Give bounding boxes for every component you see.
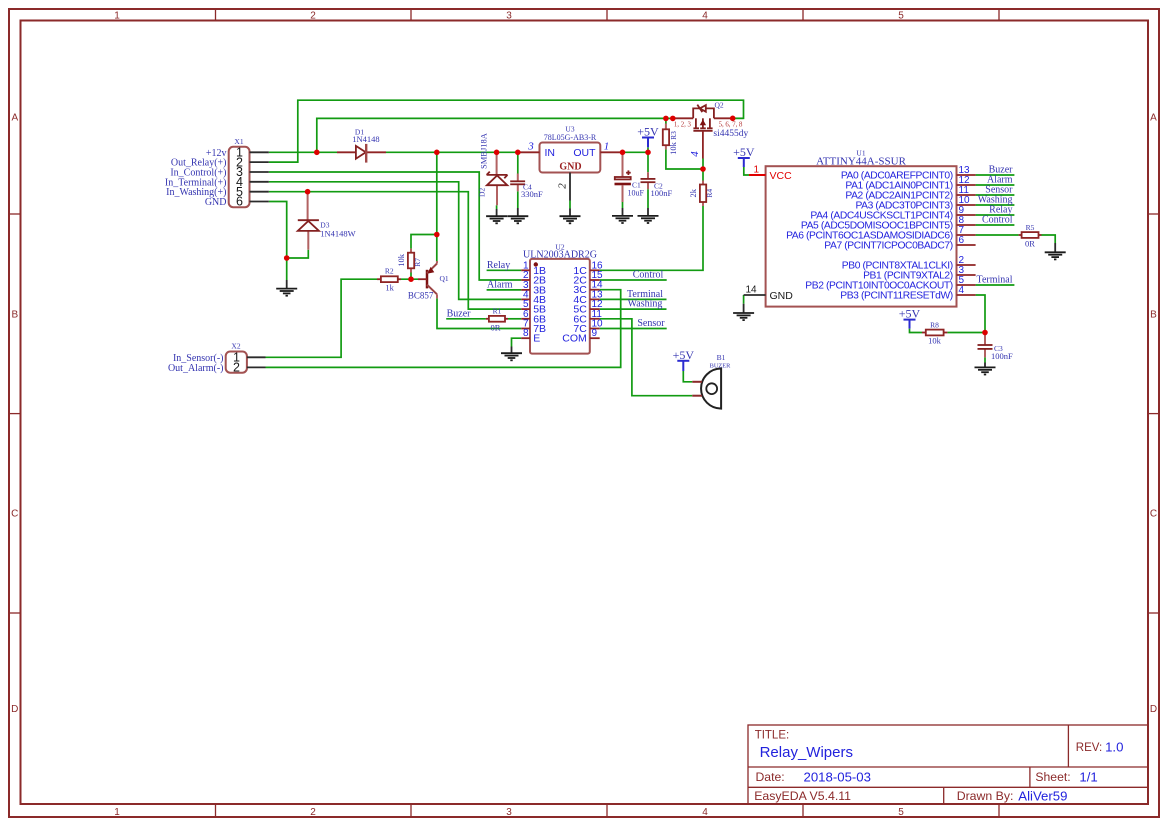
wire U2 2C Control net: [600, 279, 667, 281]
wire U1 VCC from +5V flag: [744, 167, 749, 175]
wire Alarm net to U2 3B: [487, 289, 522, 291]
wire U1 Alarm net: [976, 184, 1015, 186]
wire U1 GND pin stem: [743, 295, 745, 304]
svg-text:Buzer: Buzer: [447, 308, 472, 319]
ground at C1: [612, 208, 633, 223]
svg-text:78L05G-AB3-R: 78L05G-AB3-R: [544, 133, 597, 142]
wire U1 pin7 to R5: [976, 234, 1019, 236]
svg-text:1.0: 1.0: [1105, 740, 1123, 755]
svg-text:R3: R3: [669, 131, 678, 140]
transistor Q2 si4455dy: [673, 101, 749, 170]
svg-text:14: 14: [746, 285, 758, 296]
svg-text:4: 4: [702, 11, 708, 22]
ground at U3: [560, 209, 581, 224]
ground at U1 GND: [733, 304, 754, 320]
svg-text:1N4148W: 1N4148W: [320, 229, 355, 239]
svg-text:Sheet:: Sheet:: [1035, 770, 1070, 784]
svg-text:10k: 10k: [928, 336, 942, 346]
svg-text:Washing: Washing: [628, 299, 663, 310]
title block: [748, 725, 1148, 804]
wire U2 1C to R4 and Q2 gate: [600, 206, 703, 270]
svg-text:B1: B1: [717, 353, 726, 362]
wire R4 top to gate node: [702, 169, 704, 181]
resistor R3 10k: [663, 124, 678, 155]
node Q2 source / R3: [663, 116, 669, 122]
svg-text:2: 2: [557, 183, 569, 189]
svg-text:R5: R5: [1026, 223, 1035, 232]
svg-text:R8: R8: [930, 320, 939, 329]
svg-text:2: 2: [233, 361, 240, 375]
power flag +5V at B1: [673, 348, 695, 371]
wire +5V rail U3 OUT to C2: [620, 151, 648, 153]
node Q1 base / R2 / R7: [408, 276, 414, 282]
wire D3 cathode elbow to GND node: [287, 250, 309, 258]
svg-text:+5V: +5V: [673, 348, 695, 362]
IC U2 ULN2003ADR2G: [521, 243, 603, 354]
wire Relay net to U2 1B: [487, 269, 522, 271]
svg-text:B: B: [11, 310, 18, 321]
svg-text:1: 1: [114, 11, 120, 22]
svg-text:Q1: Q1: [440, 274, 449, 283]
svg-text:PB3 (PCINT11RESETdW): PB3 (PCINT11RESETdW): [840, 291, 953, 302]
ground at C2: [638, 208, 659, 223]
svg-text:D: D: [11, 704, 18, 715]
svg-text:R2: R2: [385, 267, 394, 276]
transistor Q1 BC857: [408, 261, 449, 301]
svg-text:COM: COM: [562, 333, 587, 345]
svg-text:Out_Alarm(-): Out_Alarm(-): [168, 363, 224, 374]
wire In_Control X1.3 to U2 2B: [269, 172, 521, 280]
wire In_Terminal X1.4 to U2 4B: [269, 182, 521, 300]
resistor R1 0R: [486, 307, 508, 333]
wire Q2 drain to top loop: [733, 117, 744, 119]
svg-text:Date:: Date:: [756, 770, 785, 784]
JUNCTIONS: [284, 116, 988, 336]
svg-text:Terminal: Terminal: [977, 275, 1013, 286]
ground at D2: [486, 209, 507, 223]
wire U2 7C Sensor net: [600, 328, 667, 330]
svg-text:BUZER: BUZER: [710, 362, 731, 369]
wire Out_Alarm X2.2 to U2 3C: [266, 290, 621, 368]
wire +5V flag to C2 node: [647, 147, 649, 152]
svg-text:R7: R7: [413, 258, 422, 267]
svg-text:10uF: 10uF: [628, 189, 645, 198]
wire D2 ground stem: [496, 205, 498, 209]
wire C4 upper lead: [517, 152, 519, 173]
svg-text:10k: 10k: [396, 253, 406, 267]
resistor R5 0R: [1019, 223, 1042, 249]
wire R8 to C3 node: [947, 332, 985, 334]
wire Q1 collector to U2 7B: [437, 298, 521, 328]
ground at U2 E: [501, 347, 522, 361]
svg-text:3: 3: [527, 141, 534, 153]
svg-text:Control: Control: [633, 270, 664, 281]
power flag +5V at U1 VCC: [733, 145, 755, 167]
svg-text:1: 1: [754, 165, 760, 176]
resistor R7 10k: [396, 249, 422, 273]
svg-text:4: 4: [959, 285, 965, 296]
svg-text:+5V: +5V: [899, 307, 921, 321]
wire +5V flag to R8: [910, 329, 923, 333]
wire C4 ground stem: [517, 191, 519, 208]
svg-text:VCC: VCC: [770, 170, 793, 182]
svg-text:REV:: REV:: [1076, 742, 1102, 754]
ground at R5: [1045, 243, 1066, 259]
svg-text:R1: R1: [493, 307, 502, 316]
power flag +5V at R8: [899, 307, 921, 329]
svg-text:1N4148: 1N4148: [352, 134, 379, 144]
wire U1 Washing net: [976, 204, 1015, 206]
wire U2 5C Washing net: [600, 308, 667, 310]
regulator U3 78L05G-AB3-R: [520, 125, 620, 201]
svg-text:3: 3: [506, 11, 512, 22]
node GND X1/D3: [284, 255, 290, 261]
svg-text:330nF: 330nF: [521, 189, 543, 199]
wire C2 upper lead: [647, 152, 649, 172]
node C1: [620, 150, 626, 156]
connector X2: [168, 342, 266, 375]
svg-text:PA7 (PCINT7ICPOC0BADC7): PA7 (PCINT7ICPOC0BADC7): [824, 241, 953, 252]
svg-text:2: 2: [310, 807, 316, 818]
wire R3 bottom to gate node: [666, 149, 703, 169]
svg-text:A: A: [11, 113, 18, 124]
svg-text:A: A: [1150, 113, 1157, 124]
wire R1 to U2 6B: [508, 318, 521, 320]
svg-text:5: 5: [898, 807, 904, 818]
svg-text:1/1: 1/1: [1079, 770, 1097, 785]
node R8 / C3 / PB3: [982, 330, 988, 336]
wire R2 to base node: [401, 278, 418, 280]
wire Buzer net to R1: [446, 318, 486, 320]
resistor R8 10k: [922, 320, 947, 345]
wire Q1 emitter to +12V rail: [436, 152, 438, 263]
svg-text:6: 6: [236, 195, 243, 209]
svg-text:ULN2003ADR2G: ULN2003ADR2G: [523, 250, 597, 261]
wire U1 Relay net: [976, 214, 1015, 216]
svg-text:BC857: BC857: [408, 291, 434, 301]
node In_Washing / D3: [305, 189, 311, 195]
svg-text:Sensor: Sensor: [637, 318, 665, 329]
svg-text:1: 1: [114, 807, 120, 818]
svg-text:D2: D2: [478, 188, 487, 197]
svg-text:Relay: Relay: [487, 260, 510, 271]
node Q2 drain: [730, 116, 736, 122]
svg-text:+5V: +5V: [733, 145, 755, 159]
resistor R4 2k: [688, 181, 714, 207]
node Q1 emitter / R7: [434, 232, 440, 238]
svg-text:1: 1: [604, 141, 610, 153]
svg-text:Alarm: Alarm: [487, 279, 513, 290]
diode D1 1N4148: [337, 128, 386, 163]
WIRES: [266, 100, 1056, 396]
svg-text:TITLE:: TITLE:: [755, 730, 790, 742]
buzzer B1: [692, 353, 731, 409]
wire C2 ground stem: [647, 189, 649, 208]
svg-text:GND: GND: [770, 290, 794, 302]
node D2: [494, 150, 500, 156]
svg-text:C: C: [1150, 509, 1157, 520]
TVS diode D2 SMBJ18A: [478, 132, 508, 205]
wire D1 cathode to U3 IN: [386, 151, 520, 153]
wire U1 Terminal net: [976, 284, 1015, 286]
node Q2 gate / R3 / R4: [700, 166, 706, 172]
svg-text:OUT: OUT: [573, 147, 596, 159]
node C4: [515, 150, 521, 156]
wire Q2 source feed from +12V rail: [317, 118, 666, 152]
svg-text:100nF: 100nF: [651, 188, 673, 198]
svg-text:C: C: [11, 509, 18, 520]
capacitor C3 100nF: [978, 333, 1014, 362]
svg-text:ATTINY44A-SSUR: ATTINY44A-SSUR: [816, 155, 907, 167]
svg-text:D: D: [1150, 704, 1157, 715]
svg-text:5: 5: [898, 11, 904, 22]
diode D3 1N4148W: [298, 192, 356, 250]
svg-text:GND: GND: [205, 197, 227, 208]
wire U2 4C Terminal net: [600, 298, 667, 300]
wire node between Q2 source dots: [666, 117, 673, 119]
wire R7 bottom to base node: [410, 273, 412, 280]
svg-text:+5V: +5V: [637, 125, 659, 139]
wire C1 ground stem: [622, 202, 624, 208]
node D1 out / Q1 emitter: [434, 150, 440, 156]
wire U2 E to ground: [512, 338, 522, 346]
svg-text:1k: 1k: [385, 283, 394, 293]
power flag +5V at C2: [637, 125, 659, 148]
wire +5V flag to B1.1: [683, 371, 692, 382]
wire In_Washing X1.5 to U2 5B: [269, 192, 521, 309]
ground at C4: [507, 208, 528, 223]
svg-text:6: 6: [959, 235, 965, 246]
MCU U1 ATTINY44A-SSUR: [744, 149, 976, 307]
wire U1 Control net: [976, 224, 1015, 226]
svg-text:E: E: [533, 333, 540, 345]
capacitor C2 100nF: [641, 172, 673, 198]
svg-text:1, 2, 3: 1, 2, 3: [674, 121, 692, 128]
svg-text:Q2: Q2: [715, 101, 724, 110]
connector X1: [165, 137, 269, 209]
capacitor C4 330nF: [510, 174, 543, 200]
svg-text:100nF: 100nF: [991, 351, 1013, 361]
capacitor C1 10uF polarized: [615, 152, 645, 202]
svg-text:R4: R4: [705, 189, 714, 198]
svg-text:GND: GND: [559, 162, 581, 173]
svg-text:Control: Control: [982, 215, 1013, 226]
wire Out_Relay loop X1.2 to Q2 drain: [269, 100, 744, 162]
wire R3 top stub: [665, 118, 667, 123]
resistor R2 1k: [377, 267, 401, 293]
svg-text:AliVer59: AliVer59: [1018, 789, 1067, 804]
svg-text:0R: 0R: [1025, 239, 1035, 249]
svg-text:2018-05-03: 2018-05-03: [804, 770, 871, 785]
wire R7 top to emitter rail: [411, 235, 437, 249]
ground at C3: [975, 363, 996, 375]
svg-text:2: 2: [310, 11, 316, 22]
svg-text:5, 6, 7, 8: 5, 6, 7, 8: [719, 121, 743, 128]
wire U1 Buzer net: [976, 174, 1015, 176]
wire In_Sensor X2.1 to R2: [266, 279, 378, 357]
wire X1.6 GND down: [269, 202, 287, 281]
U1 pin 14 GND: [744, 294, 766, 296]
svg-text:4: 4: [702, 807, 708, 818]
node C2 / +5V: [645, 150, 651, 156]
U1 pin 1 VCC: [749, 174, 766, 176]
svg-text:X2: X2: [231, 342, 240, 351]
svg-text:IN: IN: [545, 147, 556, 159]
wire U2 6C to buzzer B1.2: [600, 319, 693, 396]
svg-text:4: 4: [689, 151, 701, 157]
ground at X1/D3: [276, 280, 297, 296]
wire U1 pin4 to C3 node: [976, 295, 985, 333]
wire U1 Sensor net: [976, 194, 1015, 196]
svg-text:0R: 0R: [490, 323, 500, 333]
node +12V / Q2 feed: [314, 150, 320, 156]
svg-text:8: 8: [523, 328, 529, 339]
svg-text:SMBJ18A: SMBJ18A: [479, 132, 489, 169]
svg-text:10k: 10k: [668, 141, 678, 155]
svg-text:9: 9: [592, 328, 598, 339]
svg-text:EasyEDA V5.4.11: EasyEDA V5.4.11: [754, 789, 851, 803]
wire R5 to ground: [1042, 235, 1056, 243]
wire C3 ground stem: [984, 357, 986, 362]
svg-text:Drawn By:: Drawn By:: [957, 789, 1014, 803]
svg-text:si4455dy: si4455dy: [713, 129, 748, 139]
svg-text:B: B: [1150, 310, 1157, 321]
wire U3 GND pin stem: [569, 201, 571, 209]
svg-text:2k: 2k: [688, 188, 698, 197]
svg-text:3: 3: [506, 807, 512, 818]
svg-text:Relay_Wipers: Relay_Wipers: [760, 744, 853, 761]
node Q2 source pin: [670, 116, 676, 122]
wire +12V rail X1.1 to D1: [269, 151, 337, 153]
